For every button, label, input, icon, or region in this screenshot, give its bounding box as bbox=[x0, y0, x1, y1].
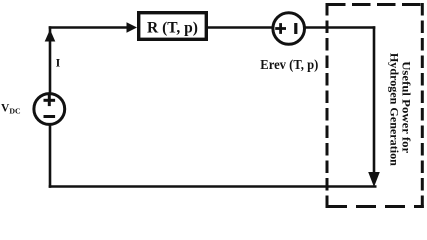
VDC plus sign bbox=[44, 99, 56, 102]
wire VDC to bottom corner bbox=[49, 126, 52, 188]
svg-text:Erev (T, p): Erev (T, p) bbox=[260, 58, 318, 73]
VDC minus sign bbox=[44, 115, 56, 118]
dashed box right edge bbox=[421, 3, 424, 208]
dashed box bottom edge bbox=[327, 205, 424, 208]
arrowhead down to load bbox=[368, 172, 380, 187]
wire resistor to Erev source bbox=[207, 26, 273, 29]
arrowhead into resistor R bbox=[127, 22, 138, 32]
Erev bar bbox=[294, 23, 297, 34]
arrowhead current I up bbox=[45, 30, 56, 42]
wire bottom return bbox=[49, 185, 377, 188]
svg-text:I: I bbox=[56, 55, 61, 69]
wire right vertical drop bbox=[373, 26, 376, 172]
voltage source Erev circle bbox=[273, 13, 305, 45]
svg-text:Hydrogen Generation: Hydrogen Generation bbox=[387, 53, 401, 166]
svg-text:R (T, p): R (T, p) bbox=[147, 20, 198, 37]
dashed box useful power, top edge bbox=[327, 3, 424, 6]
Erev plus sign bbox=[275, 27, 286, 30]
wire top-left horizontal (node to resistor) bbox=[49, 26, 128, 29]
voltage source VDC circle bbox=[34, 94, 65, 125]
label Useful Power for Hydrogen Generation (rotated) bbox=[387, 53, 413, 166]
dashed box left edge bbox=[326, 3, 329, 208]
wire left vertical (VDC to top corner) bbox=[49, 26, 52, 92]
resistor R1 box bbox=[139, 13, 207, 40]
wire Erev to right corner bbox=[305, 26, 376, 29]
